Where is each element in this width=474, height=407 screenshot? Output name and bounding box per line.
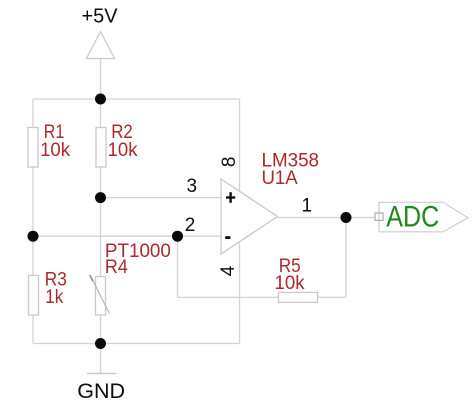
svg-text:1: 1: [302, 195, 313, 216]
wire +5V stem: [100, 59, 102, 100]
svg-text:+5V: +5V: [82, 4, 118, 27]
wire to pin 3: [101, 197, 222, 199]
op-amp U1A: [221, 179, 278, 254]
ground symbol GND: [77, 374, 125, 403]
pin connection square: [375, 213, 383, 220]
svg-text:8: 8: [219, 157, 240, 168]
wire output pin 1: [278, 217, 376, 219]
wire middle branch: [100, 99, 102, 374]
svg-text:10k: 10k: [275, 273, 305, 294]
node ground junction: [95, 338, 106, 349]
wire pin 4 ground: [239, 242, 241, 344]
resistor R5: [275, 256, 318, 302]
wire feedback right: [345, 218, 347, 298]
resistor R2: [96, 122, 138, 167]
svg-text:10k: 10k: [108, 140, 138, 161]
wire left branch: [32, 99, 34, 344]
wire feedback left: [177, 236, 179, 297]
svg-text:3: 3: [187, 176, 198, 197]
node feedback junction: [172, 231, 183, 242]
svg-text:R4: R4: [105, 257, 128, 278]
connector ADC flag: [379, 202, 468, 232]
svg-text:GND: GND: [77, 379, 125, 403]
node pin3 junction: [95, 192, 106, 203]
svg-text:U1A: U1A: [262, 168, 299, 189]
wire feedback bottom: [178, 296, 347, 298]
svg-text:10k: 10k: [40, 140, 70, 161]
power +5V symbol: [82, 4, 118, 58]
wire bottom rail: [33, 343, 240, 345]
wire pin 8 power: [239, 99, 241, 192]
node left junction: [28, 231, 39, 242]
svg-text:2: 2: [185, 215, 196, 236]
node junction top: [95, 94, 106, 105]
svg-text:4: 4: [218, 265, 239, 276]
thermistor R4 PT1000: [90, 241, 171, 315]
resistor R1: [28, 122, 70, 167]
svg-text:ADC: ADC: [386, 200, 439, 233]
svg-text:1k: 1k: [45, 287, 63, 308]
node output junction: [341, 212, 352, 223]
wire to pin 2: [33, 235, 221, 237]
resistor R3: [29, 269, 67, 315]
wire top rail: [33, 98, 240, 100]
